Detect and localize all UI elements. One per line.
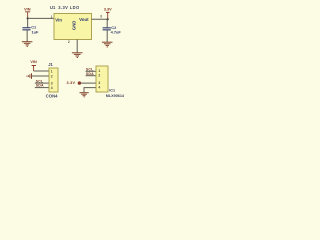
wire 3.3V junction down to C2 — [106, 19, 108, 27]
node VIN junction — [27, 17, 29, 19]
wire C2 to ground — [106, 30, 108, 42]
capacitor C1 — [22, 25, 39, 35]
svg-text:J1: J1 — [48, 62, 53, 67]
ground (below C2) — [102, 42, 113, 48]
wire SDA to J1 pin4 — [35, 87, 49, 89]
wire VIN to U1 pin1 — [28, 17, 54, 19]
svg-text:3.3V LDO: 3.3V LDO — [58, 5, 80, 10]
svg-text:IC1: IC1 — [109, 88, 115, 92]
capacitor C2 — [103, 25, 122, 35]
svg-text:4: 4 — [51, 86, 53, 90]
svg-text:1uF: 1uF — [32, 30, 40, 35]
sensor IC1 MLX90614 — [96, 66, 125, 98]
svg-text:Vin: Vin — [55, 18, 62, 23]
net label SCL (IC1) — [86, 68, 94, 72]
svg-text:2: 2 — [51, 74, 53, 78]
power port VIN (bottom left) — [30, 60, 37, 71]
wire C1 to ground — [26, 30, 28, 41]
svg-text:GND: GND — [71, 21, 76, 30]
node 3.3V junction — [107, 18, 109, 20]
power port 3.3V (at IC1 pin3) — [67, 81, 82, 85]
svg-text:3: 3 — [51, 81, 53, 85]
svg-text:VIN: VIN — [24, 8, 31, 12]
net label SDA (J1) — [36, 84, 44, 88]
wire U1 Vout to 3.3V junction — [92, 18, 108, 20]
wire ground to J1 pin2 — [32, 75, 49, 77]
net label SCL (J1) — [36, 79, 44, 83]
svg-text:VIN: VIN — [30, 60, 37, 64]
svg-text:3: 3 — [100, 14, 102, 18]
svg-text:3: 3 — [98, 81, 100, 85]
wire IC1 pin4 to ground — [84, 88, 96, 93]
svg-text:3.3V: 3.3V — [104, 8, 112, 12]
pin number 2 (U1 GND) — [68, 40, 70, 44]
svg-text:1: 1 — [51, 15, 53, 19]
wire 3.3V to IC1 pin3 — [81, 82, 96, 84]
svg-text:U1: U1 — [50, 5, 56, 10]
net label SDA (IC1) — [86, 72, 94, 76]
connector J1 CON4 — [46, 62, 58, 98]
wire VIN to J1 pin1 — [34, 70, 49, 72]
svg-text:MLX90614: MLX90614 — [106, 94, 125, 98]
wire SDA to IC1 pin2 — [86, 75, 96, 77]
ground (below U1) — [72, 52, 83, 58]
power port VIN (top) — [24, 8, 31, 19]
ground (below IC1 pin4) — [80, 92, 89, 97]
wire SCL to IC1 pin1 — [86, 70, 96, 72]
svg-text:4: 4 — [98, 86, 100, 90]
background — [0, 0, 128, 105]
svg-text:SDA: SDA — [36, 84, 44, 88]
svg-text:4.7uF: 4.7uF — [111, 30, 122, 35]
ground (left of J1, rotated) — [26, 73, 32, 79]
wire SCL to J1 pin3 — [35, 82, 49, 84]
svg-text:1: 1 — [51, 69, 53, 73]
power port 3.3V (top right) — [104, 8, 112, 20]
svg-text:2: 2 — [68, 40, 70, 44]
regulator U1 3.3V LDO — [50, 5, 92, 39]
svg-text:2: 2 — [98, 74, 100, 78]
wire U1 GND pin down — [76, 40, 78, 53]
svg-text:1: 1 — [98, 69, 100, 73]
svg-text:3.3V: 3.3V — [67, 81, 76, 85]
pin number 1 (U1 Vin) — [51, 15, 53, 19]
svg-text:Vout: Vout — [79, 17, 89, 22]
wire VIN junction down to C1 — [27, 18, 29, 27]
svg-text:CON4: CON4 — [46, 93, 58, 98]
ground (below C1) — [22, 41, 33, 47]
pin number 3 (U1 Vout) — [100, 14, 102, 18]
